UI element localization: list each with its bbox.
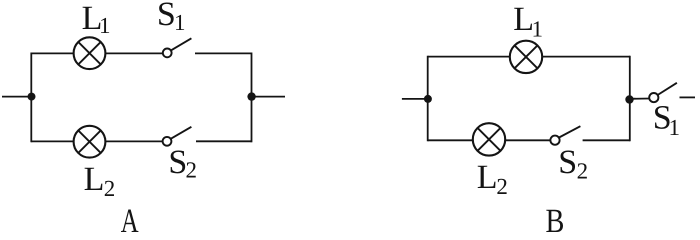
- svg-text:S: S: [558, 144, 577, 181]
- svg-text:A: A: [121, 203, 139, 232]
- wire: A top segment after switch S1 to right corner: [195, 52, 252, 54]
- svg-text:B: B: [546, 203, 565, 232]
- svg-text:L: L: [477, 159, 498, 196]
- node: A right junction dot: [247, 92, 255, 100]
- label S2 (circuit B): [558, 144, 588, 183]
- label S2 (circuit A): [168, 144, 197, 182]
- wire: B right rail vertical: [629, 56, 631, 142]
- wire: A right rail vertical: [251, 53, 253, 143]
- wire: A top segment lamp L1 to switch S1: [105, 52, 163, 54]
- lamp L1 (circuit A): [74, 37, 106, 69]
- wire: A right external lead: [252, 96, 286, 98]
- wire: A bottom segment after switch S2 to right corner: [196, 140, 252, 142]
- switch S2 (circuit A, open): [163, 127, 192, 146]
- wire: B bottom-left to lamp L2: [428, 139, 473, 141]
- wire: B bottom after switch S2 to right corner: [583, 139, 630, 141]
- svg-text:2: 2: [186, 158, 198, 183]
- lamp L2 (circuit B): [473, 123, 505, 155]
- wire: A left rail vertical: [30, 53, 32, 143]
- wire: B left rail vertical: [427, 56, 429, 142]
- svg-text:2: 2: [577, 159, 589, 184]
- svg-text:S: S: [157, 0, 176, 33]
- label L2 (circuit A): [84, 161, 116, 201]
- label S1 (circuit A): [157, 0, 186, 35]
- label A (circuit A caption): [121, 203, 139, 240]
- wire: B right external lead after switch S1: [680, 96, 696, 98]
- svg-text:S: S: [168, 144, 187, 181]
- wire: A bottom segment lamp L2 to switch S2: [105, 140, 163, 142]
- wire: A top-left horizontal segment: [31, 52, 74, 54]
- label B (circuit B caption): [546, 203, 565, 240]
- svg-text:1: 1: [99, 13, 111, 38]
- wire: B left external lead: [402, 98, 428, 100]
- lamp L2 (circuit A): [74, 126, 106, 158]
- node: B right junction dot: [625, 95, 633, 103]
- svg-text:1: 1: [174, 10, 186, 35]
- wire: A left external lead: [2, 96, 31, 98]
- wire: B right dot to switch S1: [630, 98, 651, 100]
- node: A left junction dot: [28, 93, 36, 101]
- label L1 (circuit A): [82, 0, 111, 38]
- wire: B top horizontal: [428, 56, 630, 58]
- svg-text:1: 1: [532, 16, 544, 41]
- lamp L1 (circuit B): [510, 41, 542, 73]
- switch S1 (circuit A, open): [163, 38, 192, 57]
- label S1 (circuit B): [653, 99, 680, 139]
- node: B left junction dot: [424, 95, 432, 103]
- switch S1 (circuit B, open): [649, 83, 677, 102]
- svg-text:2: 2: [104, 176, 116, 201]
- wire: B bottom lamp L2 to switch S2: [505, 139, 551, 141]
- svg-text:L: L: [84, 161, 105, 198]
- svg-text:2: 2: [496, 174, 508, 199]
- wire: A bottom-left horizontal segment: [31, 140, 74, 142]
- svg-text:1: 1: [669, 115, 681, 140]
- switch S2 (circuit B, open): [550, 126, 580, 145]
- label L1 (circuit B): [513, 1, 543, 41]
- label L2 (circuit B): [477, 159, 508, 199]
